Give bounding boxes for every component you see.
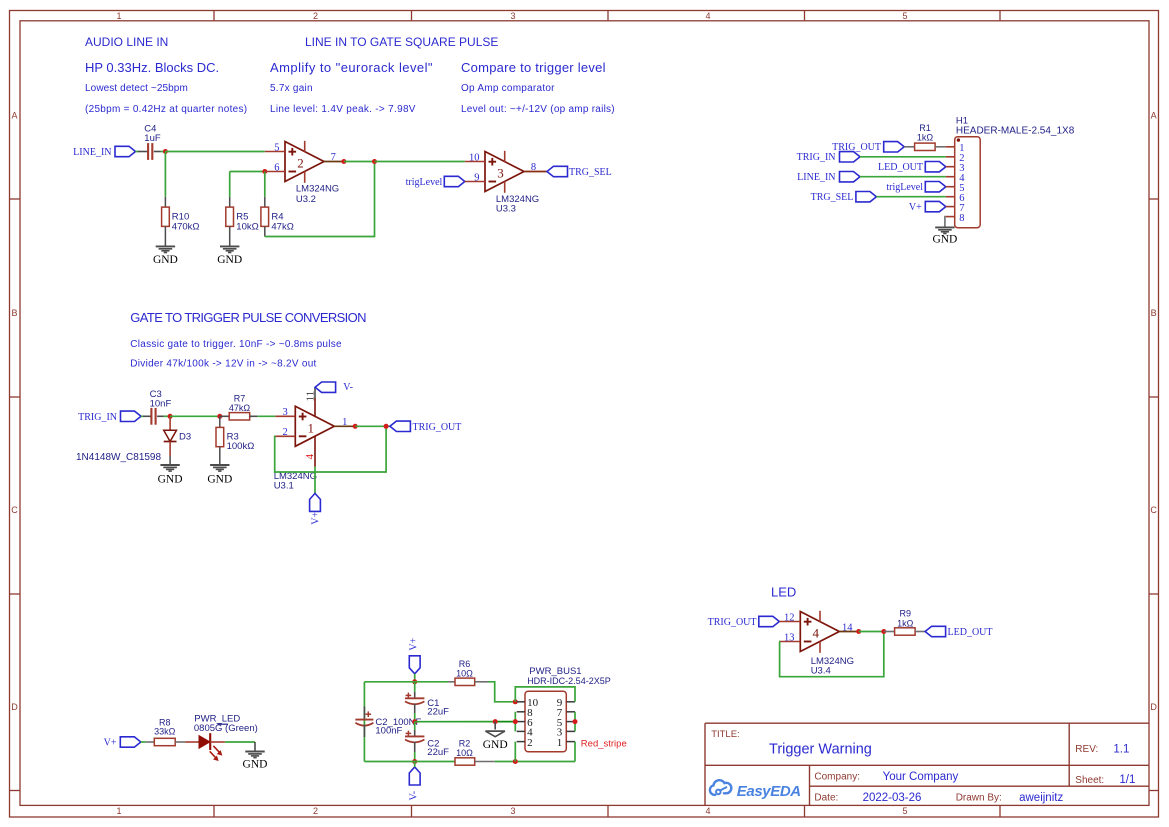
svg-text:33kΩ: 33kΩ <box>154 727 176 737</box>
wire node to R3 node <box>170 415 220 417</box>
svg-text:LED: LED <box>771 584 796 599</box>
ground under R5 <box>220 245 239 247</box>
ground under R3 <box>210 464 229 466</box>
svg-text:Compare to trigger level: Compare to trigger level <box>461 60 606 75</box>
svg-text:1kΩ: 1kΩ <box>917 132 934 142</box>
svg-text:GND: GND <box>207 473 232 485</box>
wire TRIG_IN to H1 pin2 <box>860 156 946 158</box>
wire TRIG_IN to C3 <box>141 415 144 417</box>
svg-text:3: 3 <box>497 166 504 181</box>
svg-text:4: 4 <box>304 454 316 460</box>
svg-text:4: 4 <box>813 626 820 641</box>
wire mid rail <box>415 721 496 723</box>
svg-text:10nF: 10nF <box>150 399 172 410</box>
svg-text:1kΩ: 1kΩ <box>897 618 914 628</box>
wire pin2 down <box>514 742 516 762</box>
svg-text:GND: GND <box>158 473 183 485</box>
power flag V+ at PWR_BUS <box>409 656 420 674</box>
resistor R2 <box>455 758 475 765</box>
svg-text:Level out: ~+/-12V (op amp rai: Level out: ~+/-12V (op amp rails) <box>461 104 615 115</box>
LED PWR_LED <box>199 736 210 749</box>
svg-text:3: 3 <box>510 11 515 21</box>
wire pins 7-5-3 bracket <box>574 712 576 732</box>
wire top rail <box>364 681 448 683</box>
wire pin10 pin9 bridge <box>515 687 575 702</box>
svg-text:Date:: Date: <box>814 793 838 804</box>
svg-text:6: 6 <box>274 163 279 174</box>
svg-text:(25bpm = 0.42Hz at quarter not: (25bpm = 0.42Hz at quarter notes) <box>85 104 247 115</box>
svg-text:U3.1: U3.1 <box>274 481 294 492</box>
svg-text:V+: V+ <box>409 637 420 650</box>
pin 14 U3.4 output <box>839 631 858 633</box>
pin 13 U3.4 <box>779 641 800 643</box>
wire C4 to node <box>154 151 161 153</box>
svg-text:10: 10 <box>469 153 480 164</box>
power flag V- at PWR_BUS <box>409 767 420 785</box>
svg-text:22uF: 22uF <box>427 747 449 758</box>
pin 8 U3.3 output <box>524 171 547 173</box>
svg-text:R7: R7 <box>234 393 246 403</box>
svg-text:4: 4 <box>705 11 710 21</box>
svg-text:1uF: 1uF <box>144 133 161 144</box>
ground at PWR_BUS <box>485 730 505 732</box>
svg-text:1N4148W_C81598: 1N4148W_C81598 <box>76 452 161 463</box>
svg-text:GND: GND <box>932 234 957 246</box>
capacitor C2 <box>414 722 416 730</box>
svg-text:12: 12 <box>784 613 795 624</box>
ground under H1 <box>935 226 954 228</box>
svg-text:TRG_SEL: TRG_SEL <box>569 167 612 178</box>
EasyEDA logo <box>710 780 731 795</box>
junction pin2 node <box>513 759 518 764</box>
net flag trigLevel at H1 <box>925 182 946 192</box>
junction mid rail C1 C2 <box>412 719 417 724</box>
pin 12 U3.4 <box>779 621 800 623</box>
svg-text:A: A <box>1151 111 1157 121</box>
diode D3 <box>169 416 171 430</box>
net flag LINE_IN <box>115 146 136 156</box>
svg-text:0805G (Green): 0805G (Green) <box>194 723 258 734</box>
wire node to U3.3 pin10 <box>375 161 465 163</box>
svg-text:5: 5 <box>274 143 279 154</box>
svg-text:TRIG_IN: TRIG_IN <box>78 412 117 423</box>
wire node to R9 <box>884 631 895 633</box>
resistor R9 <box>895 628 916 635</box>
svg-text:5.7x gain: 5.7x gain <box>270 83 313 94</box>
svg-text:R2: R2 <box>459 739 471 749</box>
wire V- flag to rail <box>414 762 416 768</box>
svg-text:13: 13 <box>784 633 795 644</box>
svg-text:C: C <box>11 505 18 515</box>
svg-text:B: B <box>11 308 17 318</box>
svg-text:Line level: 1.4V peak. -> 7.98: Line level: 1.4V peak. -> 7.98V <box>270 104 416 115</box>
resistor R5 <box>229 197 231 207</box>
junction pin5 node <box>573 719 578 724</box>
svg-text:Classic gate to trigger. 10nF: Classic gate to trigger. 10nF -> ~0.8ms … <box>130 339 342 350</box>
ground under R10 <box>156 245 175 247</box>
svg-text:1/1: 1/1 <box>1119 774 1135 786</box>
net flag TRIG_OUT <box>390 421 411 431</box>
svg-text:D: D <box>1150 702 1157 712</box>
svg-text:C: C <box>1150 505 1157 515</box>
svg-text:3: 3 <box>510 806 515 816</box>
net flag LED_OUT at H1 <box>925 162 946 172</box>
wire V+ to R8 <box>141 741 146 743</box>
junction bottom rail V- <box>412 759 417 764</box>
svg-text:1: 1 <box>116 806 121 816</box>
junction U3.4 output <box>856 629 861 634</box>
svg-text:7: 7 <box>331 152 336 163</box>
ground under D3 <box>160 464 179 466</box>
svg-text:LINE_IN: LINE_IN <box>73 147 111 158</box>
resistor R1 <box>915 143 936 150</box>
resistor R10 <box>164 197 166 207</box>
svg-text:1: 1 <box>342 417 347 428</box>
wire U3.4 feedback <box>779 632 884 677</box>
net flag TRIG_OUT at H1 <box>884 142 905 152</box>
power flag V+ below U3.1 <box>310 493 321 511</box>
svg-text:V+: V+ <box>104 738 117 749</box>
svg-text:TITLE:: TITLE: <box>711 729 740 740</box>
op-amp U3.3 <box>485 152 524 192</box>
junction top rail V+ <box>412 679 417 684</box>
net flag TRIG_IN at H1 <box>840 152 861 162</box>
svg-text:10Ω: 10Ω <box>456 669 473 679</box>
svg-text:TRIG_IN: TRIG_IN <box>797 152 836 163</box>
svg-text:11: 11 <box>305 391 317 402</box>
net flag LED_OUT <box>925 626 946 636</box>
svg-text:HDR-IDC-2.54-2X5P: HDR-IDC-2.54-2X5P <box>527 676 611 686</box>
svg-text:V-: V- <box>343 382 353 393</box>
wire pin1 down <box>574 742 576 762</box>
svg-text:trigLevel: trigLevel <box>406 177 443 188</box>
svg-text:100nF: 100nF <box>375 726 402 737</box>
svg-text:trigLevel: trigLevel <box>886 182 923 193</box>
svg-text:U3.4: U3.4 <box>811 666 831 677</box>
wire U3.2 feedback <box>265 162 375 237</box>
wire TRG_SEL to H1 pin6 <box>876 196 945 198</box>
junction C4 out <box>163 149 168 154</box>
wire U3.1 feedback <box>275 426 386 472</box>
connector H1 HEADER-MALE-2.54_1X8 <box>955 137 981 228</box>
wire LINE_IN to H1 pin4 <box>860 176 946 178</box>
svg-text:D: D <box>11 702 18 712</box>
title block <box>705 722 1149 724</box>
wire R5 node to pin6 <box>230 171 265 173</box>
resistor R8 <box>154 738 175 745</box>
junction pin10 node <box>513 699 518 704</box>
wire pins 8-6-4 bracket <box>514 712 516 732</box>
svg-text:47kΩ: 47kΩ <box>229 403 251 413</box>
svg-text:1.1: 1.1 <box>1113 744 1129 756</box>
resistor R6 <box>448 681 455 683</box>
net flag TRIG_IN <box>121 411 142 421</box>
pin 5 U3.2 <box>265 151 285 153</box>
net flag trigLevel <box>444 176 465 186</box>
svg-text:R6: R6 <box>459 659 471 669</box>
wire H1 pin8 to ground <box>944 217 947 228</box>
svg-text:4: 4 <box>705 806 710 816</box>
junction U3.2 output <box>341 159 346 164</box>
svg-text:2: 2 <box>283 427 288 438</box>
svg-text:3: 3 <box>283 407 288 418</box>
wire D3 to ground <box>169 456 171 465</box>
resistor R4 <box>264 172 266 197</box>
wire R9 to LED_OUT flag <box>915 631 925 633</box>
op-amp U3.2 <box>285 142 324 182</box>
resistor R3 <box>219 416 221 427</box>
wire U3.1 power to V+ flag <box>314 467 316 494</box>
svg-text:100kΩ: 100kΩ <box>227 441 255 452</box>
svg-text:GND: GND <box>243 758 268 770</box>
svg-text:Your Company: Your Company <box>883 771 959 783</box>
svg-text:Op Amp comparator: Op Amp comparator <box>461 83 555 94</box>
svg-text:U3.2: U3.2 <box>296 194 316 205</box>
svg-text:A: A <box>11 111 17 121</box>
junction U3.1 output <box>353 424 358 429</box>
svg-text:47kΩ: 47kΩ <box>271 222 293 233</box>
resistor R7 <box>220 415 229 417</box>
svg-text:aweijnitz: aweijnitz <box>1019 792 1063 804</box>
svg-text:LINE IN TO GATE SQUARE PULSE: LINE IN TO GATE SQUARE PULSE <box>305 35 498 49</box>
svg-text:Company:: Company: <box>814 772 860 783</box>
wire V+ flag to rail <box>414 674 416 682</box>
net flag TRIG_OUT at U3.4 <box>759 616 780 626</box>
svg-text:U3.3: U3.3 <box>496 204 516 215</box>
svg-text:HP 0.33Hz. Blocks DC.: HP 0.33Hz. Blocks DC. <box>85 60 219 75</box>
svg-text:2022-03-26: 2022-03-26 <box>863 792 922 804</box>
svg-text:HEADER-MALE-2.54_1X8: HEADER-MALE-2.54_1X8 <box>956 126 1075 137</box>
svg-text:LED_OUT: LED_OUT <box>948 627 993 638</box>
svg-text:Trigger Warning: Trigger Warning <box>769 742 872 758</box>
pin 9 U3.3 <box>465 181 485 183</box>
pin 11 V- power U3.1 <box>314 398 316 416</box>
svg-text:2: 2 <box>527 737 533 749</box>
wire bottom rail left <box>364 761 455 763</box>
svg-text:D3: D3 <box>179 432 191 443</box>
wire node to U3.2 pin5 <box>165 151 264 153</box>
wire R6 to pin10 <box>488 682 515 702</box>
svg-text:Lowest detect ~25bpm: Lowest detect ~25bpm <box>85 83 188 94</box>
wire R7 to U3.1 pin3 <box>257 415 275 417</box>
pin 3 U3.1 <box>275 415 295 417</box>
ground under PWR_LED <box>245 751 264 753</box>
wire C3 to node <box>157 415 163 417</box>
svg-text:10Ω: 10Ω <box>456 748 473 758</box>
svg-text:5: 5 <box>902 11 907 21</box>
svg-text:9: 9 <box>474 173 479 184</box>
pin 1 U3.1 output <box>334 425 355 427</box>
svg-text:470kΩ: 470kΩ <box>172 222 200 233</box>
svg-text:2: 2 <box>297 156 304 171</box>
capacitor C1 <box>414 682 416 692</box>
svg-text:Sheet:: Sheet: <box>1075 775 1104 786</box>
wire TRIG_OUT to R1 <box>904 146 914 148</box>
junction R3 node <box>217 414 222 419</box>
wire R1 to H1 pin1 <box>935 146 946 148</box>
svg-text:GATE TO TRIGGER PULSE CONVERSI: GATE TO TRIGGER PULSE CONVERSION <box>130 310 366 325</box>
junction U3.2 pin6 node <box>262 169 267 174</box>
net flag V+ at R8 <box>120 737 141 747</box>
junction feedback node <box>372 159 377 164</box>
pin 4 V+ power U3.1 <box>314 436 316 466</box>
capacitor C4 <box>147 143 149 160</box>
svg-text:Red_stripe: Red_stripe <box>581 739 627 750</box>
junction C3 out <box>168 414 173 419</box>
svg-text:R9: R9 <box>900 609 912 619</box>
pin 10 U3.3 <box>465 161 485 163</box>
svg-text:8: 8 <box>531 162 536 173</box>
wire LINE_IN to C4 <box>136 151 139 153</box>
wire gnd tap down <box>494 722 496 730</box>
svg-text:LINE_IN: LINE_IN <box>797 172 835 183</box>
svg-text:GND: GND <box>217 254 242 266</box>
wire left rail <box>363 682 365 762</box>
wire R8 to LED <box>175 741 185 743</box>
capacitor C2_100NF <box>363 706 365 719</box>
junction mid rail gnd tap <box>493 719 498 724</box>
svg-text:Divider 47k/100k -> 12V in ->: Divider 47k/100k -> 12V in -> ~8.2V out <box>130 359 316 370</box>
svg-text:V+: V+ <box>909 202 922 213</box>
wire U3.1 out to flag <box>355 425 390 427</box>
connector PWR_BUS1 HDR-IDC-2.54-2X5P <box>525 691 566 752</box>
wire U3.4 out to node <box>859 631 884 633</box>
svg-text:AUDIO LINE IN: AUDIO LINE IN <box>85 35 168 49</box>
op-amp U3.1 <box>295 406 334 446</box>
junction LED_OUT node <box>881 629 886 634</box>
capacitor C3 <box>150 408 152 425</box>
svg-text:V-: V- <box>409 791 420 801</box>
svg-text:22uF: 22uF <box>427 707 449 718</box>
wire U3.2 out to node <box>344 161 375 163</box>
net flag V- at U3.1 <box>315 382 336 392</box>
svg-text:5: 5 <box>902 806 907 816</box>
wire R5 up <box>229 172 231 197</box>
svg-text:2: 2 <box>313 806 318 816</box>
svg-text:GND: GND <box>153 254 178 266</box>
wire bottom rail right <box>495 761 575 763</box>
wire LED to ground <box>210 741 225 743</box>
svg-text:1: 1 <box>557 737 563 749</box>
svg-text:TRIG_OUT: TRIG_OUT <box>413 422 462 433</box>
wire node down to R10 <box>164 152 166 197</box>
svg-text:TRIG_OUT: TRIG_OUT <box>708 617 757 628</box>
net flag TRG_SEL <box>547 166 568 176</box>
op-amp U3.4 <box>800 612 839 652</box>
net flag LINE_IN at H1 <box>840 172 861 182</box>
svg-text:10kΩ: 10kΩ <box>236 222 258 233</box>
net flag V+ at H1 <box>925 201 946 211</box>
pin 2 U3.1 <box>275 435 295 437</box>
svg-text:8: 8 <box>959 213 964 224</box>
svg-text:Drawn By:: Drawn By: <box>956 793 1002 804</box>
svg-text:REV:: REV: <box>1075 744 1098 755</box>
pin 7 U3.2 output <box>324 161 344 163</box>
svg-text:14: 14 <box>842 623 853 634</box>
svg-text:EasyEDA: EasyEDA <box>737 783 801 800</box>
pin 6 U3.2 <box>265 171 285 173</box>
net flag TRG_SEL at H1 <box>856 192 877 202</box>
svg-text:2: 2 <box>313 11 318 21</box>
svg-text:B: B <box>1151 308 1157 318</box>
svg-text:Amplify to "eurorack level": Amplify to "eurorack level" <box>270 60 433 75</box>
svg-text:1: 1 <box>308 420 315 435</box>
svg-text:TRG_SEL: TRG_SEL <box>811 192 854 203</box>
svg-text:1: 1 <box>116 11 121 21</box>
junction pin6 node <box>513 719 518 724</box>
svg-text:GND: GND <box>483 739 508 751</box>
svg-text:V+: V+ <box>310 512 321 525</box>
svg-text:LED_OUT: LED_OUT <box>878 162 923 173</box>
junction TRIG_OUT node <box>384 424 389 429</box>
